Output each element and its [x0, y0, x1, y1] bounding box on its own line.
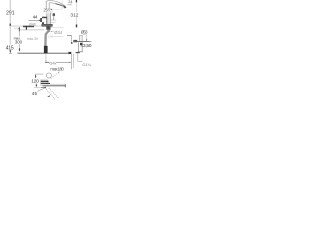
svg-text:45: 45 [32, 91, 38, 96]
svg-text:300: 300 [15, 40, 23, 45]
svg-text:max.30: max.30 [27, 37, 38, 41]
svg-text:312: 312 [70, 12, 78, 18]
svg-text:44: 44 [33, 15, 38, 20]
svg-text:Ø63: Ø63 [81, 30, 88, 35]
svg-text:G1¼: G1¼ [82, 62, 91, 67]
svg-text:120: 120 [31, 79, 39, 84]
svg-text:142: 142 [48, 35, 53, 39]
svg-text:Ø34: Ø34 [54, 30, 63, 35]
svg-text:max.180: max.180 [50, 67, 64, 72]
svg-text:291: 291 [6, 10, 15, 16]
svg-text:24: 24 [68, 0, 72, 4]
svg-text:G⅜: G⅜ [49, 61, 56, 66]
svg-text:Ø46: Ø46 [29, 22, 36, 26]
